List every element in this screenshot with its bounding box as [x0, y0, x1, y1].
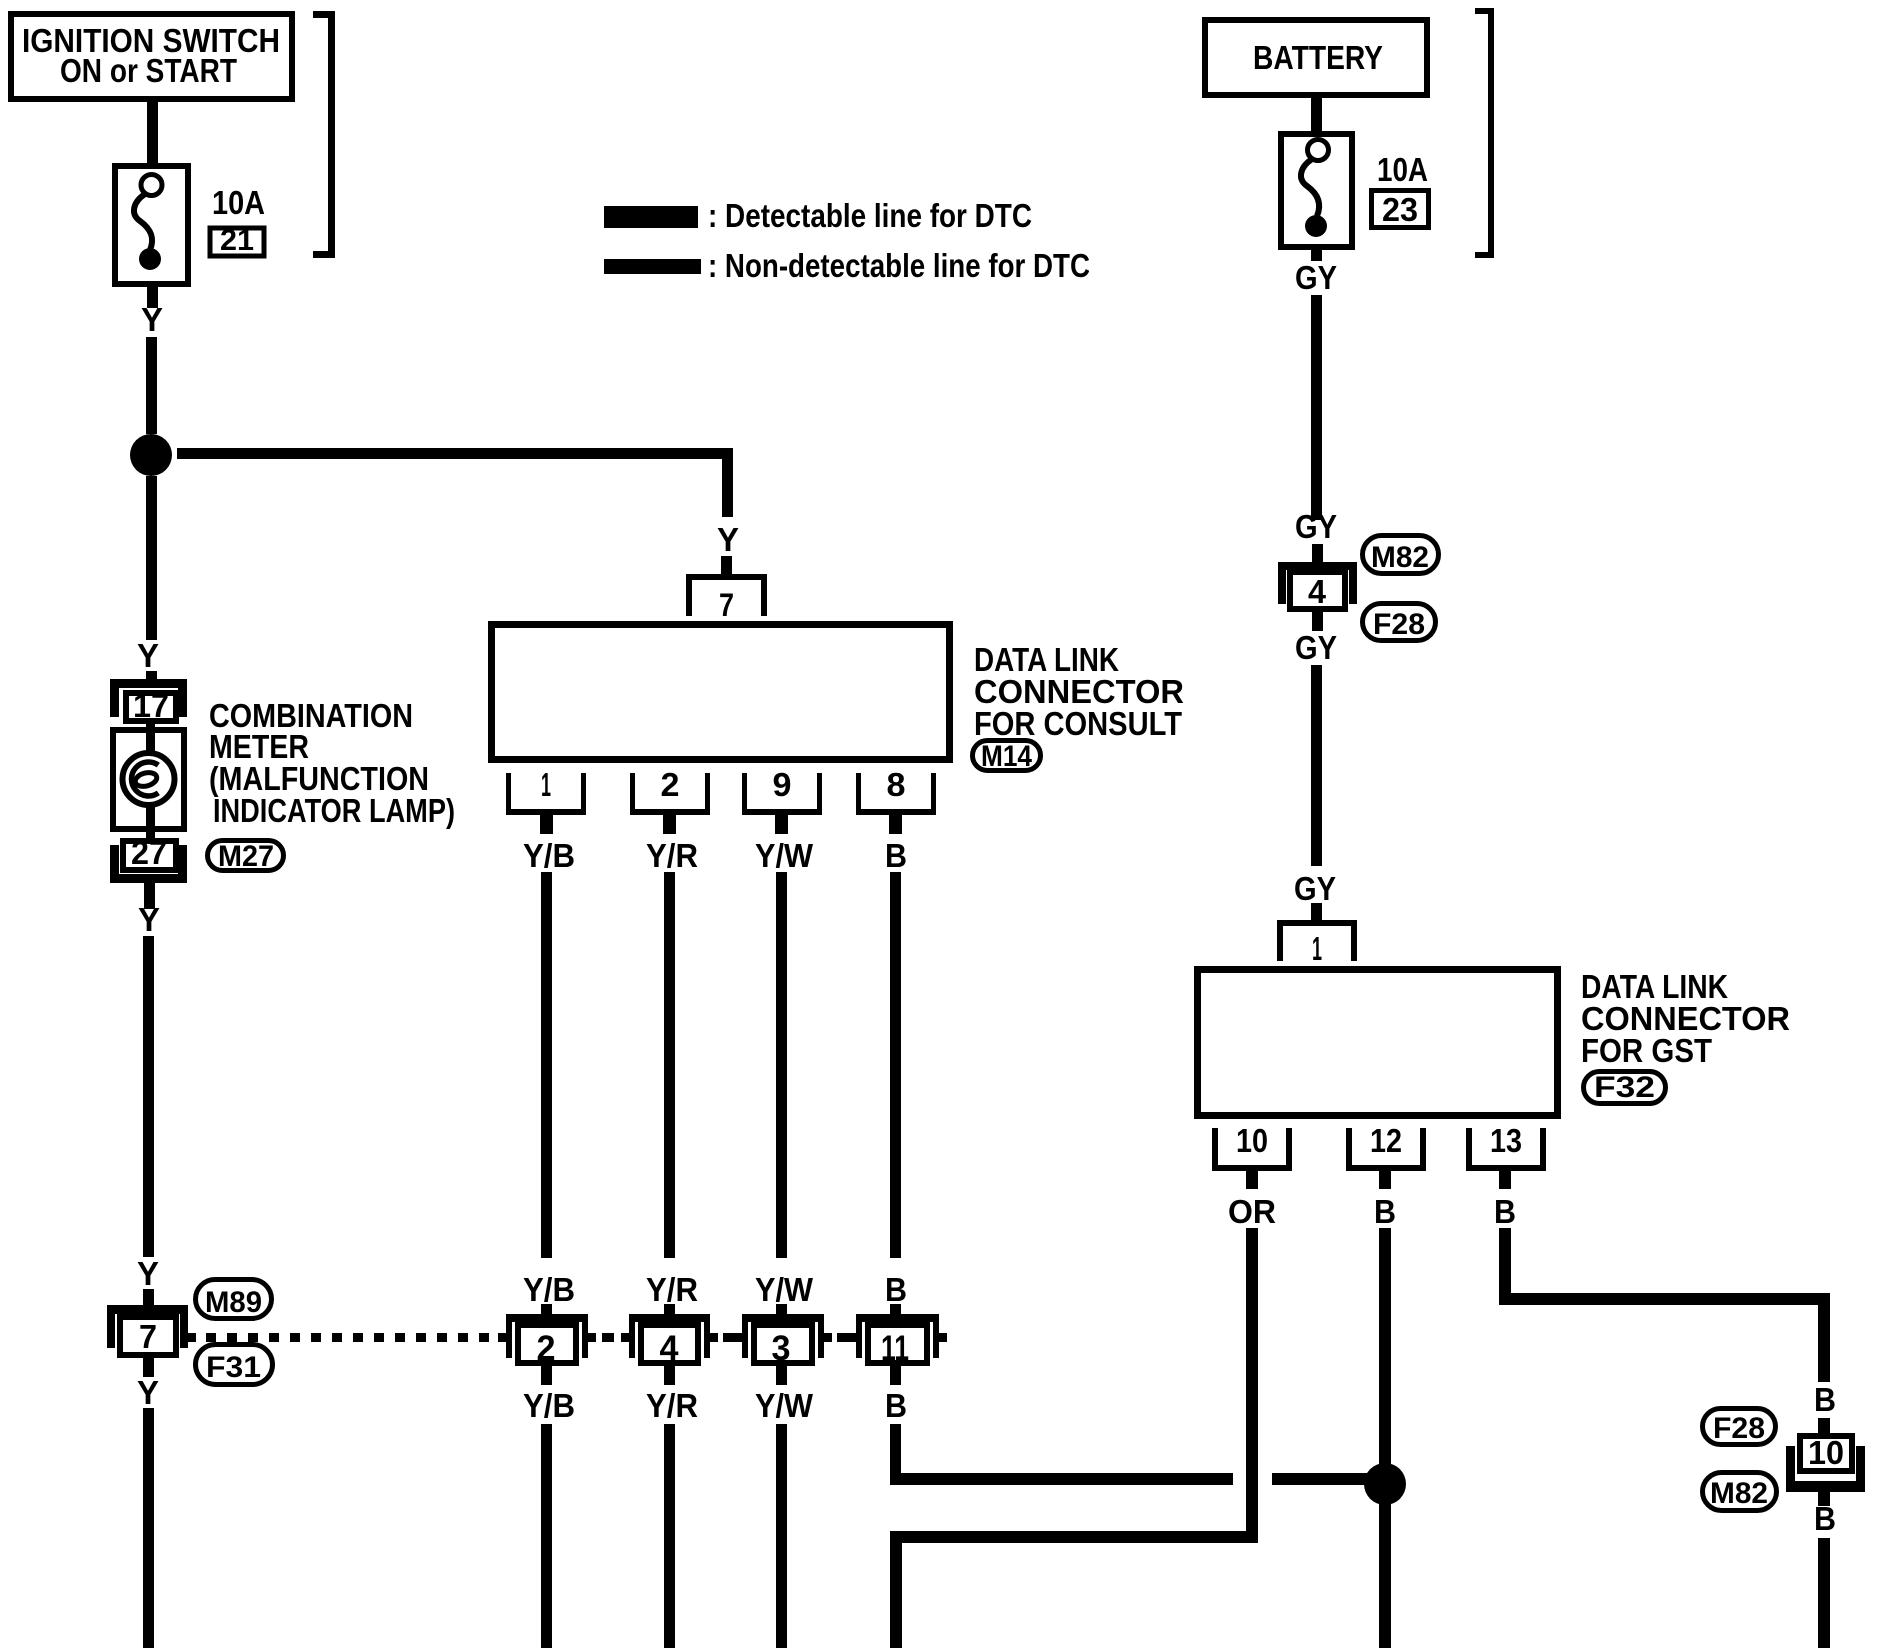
long wire down left [143, 936, 154, 1257]
svg-text:B: B [1814, 1500, 1836, 1537]
connector 17 bracket [110, 679, 187, 717]
wire OR horizontal [894, 1531, 1258, 1543]
svg-text:Y: Y [137, 1255, 159, 1292]
svg-text:M82: M82 [1371, 541, 1429, 574]
svg-text:Y/R: Y/R [646, 1387, 698, 1424]
svg-text:8: 8 [887, 766, 906, 803]
wire below connector 7 [143, 1355, 154, 1377]
svg-text:M82: M82 [1710, 1477, 1768, 1510]
svg-text:F28: F28 [1373, 608, 1425, 641]
wire down to pin 7 [722, 448, 733, 517]
svg-text:F28: F28 [1713, 1412, 1765, 1445]
connector 4 side stubs [621, 1333, 718, 1342]
wire Y/B down [541, 872, 552, 1258]
pin 7 bracket [686, 574, 767, 623]
GST pin 13 [1466, 1122, 1546, 1171]
svg-text:B: B [885, 837, 907, 874]
combination meter body [113, 730, 184, 829]
wire below meter [144, 883, 155, 909]
svg-text:7: 7 [719, 587, 734, 623]
svg-text:Y: Y [717, 521, 739, 558]
inline connector 10 (F28/M82) [1786, 1434, 1865, 1492]
fuse 21 box [115, 166, 188, 284]
wire B down [890, 872, 901, 1258]
fuse number 21 box [210, 224, 264, 257]
svg-text:13: 13 [1490, 1122, 1522, 1159]
connector 7 bracket [107, 1305, 188, 1348]
wire B elbow down [890, 1424, 901, 1485]
connector 7 box [120, 1317, 176, 1355]
wire stub into row connector [776, 1304, 787, 1316]
connector id M82 [1703, 1473, 1777, 1511]
wire Y/R down [664, 872, 675, 1258]
fuse 23 symbol [1301, 140, 1329, 238]
fuse 21 symbol [134, 175, 162, 271]
svg-text:1: 1 [1312, 930, 1322, 967]
wire below connector 11 [890, 1366, 901, 1385]
wire B down [1499, 1228, 1511, 1305]
inline connector 2 [506, 1314, 588, 1368]
connector id F28 [1703, 1409, 1776, 1446]
wire below connector 10 [1818, 1492, 1830, 1506]
wire B down right side [1818, 1293, 1830, 1382]
data link connector for consult box [492, 625, 950, 760]
connector id F28 [1363, 604, 1436, 642]
wire Y to meter connector [146, 671, 157, 681]
connector 11 side stubs [848, 1333, 947, 1342]
wire stub into row connector [890, 1304, 901, 1316]
dashes between inline connectors [602, 1333, 848, 1342]
wire B horizontal to junction [890, 1473, 1233, 1485]
svg-text:Y/W: Y/W [755, 1387, 814, 1424]
inline connector 4 [629, 1314, 710, 1368]
bracket (battery group) [1475, 8, 1494, 258]
wire stub into row connector [541, 1304, 552, 1316]
svg-text:Y: Y [138, 901, 160, 938]
svg-text:27: 27 [131, 834, 167, 871]
pin 8 wire stub [889, 815, 902, 834]
ignition switch box [11, 14, 292, 99]
wire B to bottom edge [1818, 1538, 1830, 1648]
svg-text:GY: GY [1295, 629, 1337, 666]
svg-text:4: 4 [1308, 573, 1327, 610]
legend thick line [604, 206, 698, 228]
connector 17 box [126, 687, 176, 724]
connector id M14 [973, 740, 1041, 773]
pin 9 wire stub [775, 815, 788, 834]
svg-text:7: 7 [139, 1318, 157, 1355]
svg-text:Y: Y [141, 301, 163, 338]
GST pin 1 bracket [1277, 920, 1357, 967]
data link connector for GST box [1198, 970, 1558, 1116]
svg-text:B: B [885, 1387, 907, 1424]
svg-text:10A: 10A [212, 184, 265, 221]
inline connector 4 (M82/F28) [1278, 562, 1357, 610]
svg-text:21: 21 [220, 224, 254, 257]
wire junction down [146, 476, 157, 640]
svg-text:BATTERY: BATTERY [1253, 39, 1383, 76]
consult label text [974, 641, 1184, 742]
svg-text:F31: F31 [206, 1351, 261, 1384]
bracket (ignition group) [313, 11, 335, 258]
connector id M89 [196, 1280, 272, 1320]
svg-text:17: 17 [133, 687, 169, 724]
wire below connector 4 [664, 1366, 675, 1385]
wire GY long [1311, 295, 1322, 520]
svg-text:4: 4 [660, 1329, 680, 1368]
svg-text:GY: GY [1294, 870, 1336, 907]
connector id M82 [1363, 536, 1439, 575]
connector id F31 [196, 1345, 273, 1385]
battery box [1205, 20, 1427, 95]
wire below connector 2 [541, 1366, 552, 1385]
connector id F32 [1584, 1071, 1666, 1104]
svg-text:10: 10 [1808, 1434, 1844, 1471]
GST label text [1581, 968, 1790, 1069]
wire inside meter bottom [146, 804, 155, 840]
svg-text:ON or START: ON or START [60, 52, 237, 89]
svg-text:1: 1 [541, 766, 551, 803]
wire ignition to fuse [147, 99, 158, 173]
wire below fuse [1311, 247, 1322, 261]
svg-text:M14: M14 [981, 740, 1032, 773]
svg-text:B: B [1814, 1381, 1836, 1418]
pin 10 wire stub [1246, 1171, 1258, 1189]
svg-text:Y/B: Y/B [523, 1271, 575, 1308]
svg-text:Y: Y [137, 637, 159, 674]
pin 13 wire stub [1499, 1171, 1511, 1189]
connector 27 bracket [110, 845, 187, 883]
svg-text:B: B [1494, 1193, 1516, 1230]
wire OR down [1246, 1228, 1258, 1543]
consult pin 1 [506, 766, 586, 815]
svg-text:OR: OR [1228, 1193, 1276, 1230]
svg-text:9: 9 [773, 766, 792, 803]
svg-text:10: 10 [1236, 1122, 1268, 1159]
connector 3 side stubs [734, 1333, 832, 1342]
pin 2 wire stub [663, 815, 676, 834]
svg-text:: Detectable line for DTC: : Detectable line for DTC [708, 197, 1032, 234]
svg-text:Y: Y [137, 1374, 159, 1411]
wire to bottom edge [143, 1408, 154, 1648]
svg-text:Y/W: Y/W [755, 837, 814, 874]
pin 12 wire stub [1379, 1171, 1391, 1189]
svg-text:Y/B: Y/B [523, 837, 575, 874]
wire into connector 10 [1818, 1418, 1830, 1433]
wire below connector 3 [776, 1366, 787, 1385]
fuse number 23 box [1372, 191, 1429, 229]
malfunction indicator lamp [123, 753, 175, 805]
svg-text:Y/B: Y/B [523, 1387, 575, 1424]
wire Y/R to bottom [664, 1424, 675, 1648]
connector 2 side stubs [498, 1333, 596, 1342]
svg-text:INDICATOR LAMP): INDICATOR LAMP) [213, 792, 455, 829]
pin 1 wire stub [540, 815, 553, 834]
wire inside meter top [146, 724, 155, 754]
svg-text:B: B [885, 1271, 907, 1308]
svg-text:GY: GY [1295, 259, 1337, 296]
wire B horizontal after break [1272, 1473, 1385, 1485]
legend thin line [604, 259, 701, 274]
inline connector 3 [742, 1314, 824, 1368]
GST pin 12 [1346, 1122, 1426, 1171]
inline connector 11 [856, 1314, 939, 1368]
dashed harness line [206, 1333, 494, 1342]
wire GY long 2 [1311, 665, 1322, 866]
junction node [1364, 1463, 1406, 1505]
svg-text:FOR CONSULT: FOR CONSULT [974, 705, 1182, 742]
wire battery to fuse [1311, 95, 1322, 137]
wire Y/B to bottom [541, 1424, 552, 1648]
svg-text:GY: GY [1295, 508, 1337, 545]
svg-text:Y/R: Y/R [646, 1271, 698, 1308]
svg-text:2: 2 [661, 766, 680, 803]
svg-text:: Non-detectable line for DTC: : Non-detectable line for DTC [708, 247, 1090, 284]
wire Y/W down [776, 872, 787, 1258]
wire Y to junction [146, 337, 157, 434]
GST pin 10 [1212, 1122, 1292, 1171]
svg-text:Y/R: Y/R [646, 837, 698, 874]
consult pin 8 [856, 766, 936, 815]
meter label text [209, 697, 455, 829]
dashed harness line stub [188, 1333, 196, 1342]
wire into GST pin 1 [1311, 903, 1322, 921]
wire Y/W to bottom [776, 1424, 787, 1648]
wire stub into pin 7 [721, 556, 732, 575]
consult pin 9 [742, 766, 822, 815]
wire junction to consult (horizontal) [177, 448, 733, 459]
connector 27 box [123, 834, 176, 871]
consult pin 2 [630, 766, 710, 815]
fuse 23 box [1281, 134, 1352, 247]
svg-text:11: 11 [881, 1329, 909, 1368]
wire OR down to bottom [890, 1531, 902, 1648]
wire below connector 4 [1312, 609, 1323, 631]
svg-text:10A: 10A [1377, 151, 1428, 188]
wire stub into row connector [664, 1304, 675, 1316]
svg-text:M89: M89 [205, 1286, 262, 1319]
junction node [130, 434, 172, 476]
svg-text:B: B [1374, 1193, 1396, 1230]
svg-text:M27: M27 [218, 840, 274, 873]
wire B horizontal right [1499, 1293, 1830, 1305]
wire into connector 4 [1312, 544, 1323, 562]
svg-text:3: 3 [772, 1329, 791, 1368]
svg-text:2: 2 [537, 1329, 556, 1368]
connector id M27 [208, 840, 284, 873]
wire into connector 7 [143, 1289, 154, 1306]
svg-text:FOR GST: FOR GST [1581, 1032, 1712, 1069]
svg-text:23: 23 [1382, 191, 1418, 228]
svg-text:Y/W: Y/W [755, 1271, 814, 1308]
wire fuse to Y label [147, 284, 158, 308]
svg-text:F32: F32 [1594, 1071, 1655, 1104]
svg-text:12: 12 [1370, 1122, 1402, 1159]
wire B down to bottom [1379, 1228, 1391, 1648]
